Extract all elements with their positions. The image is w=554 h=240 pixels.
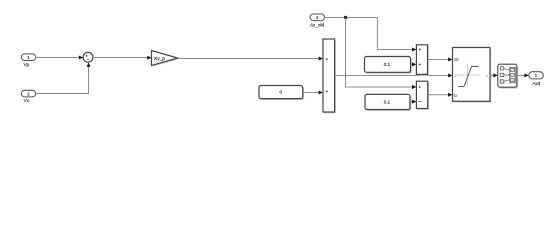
label Axd <box>532 81 540 86</box>
svg-text:Kv_p: Kv_p <box>154 56 165 61</box>
svg-text:0.1: 0.1 <box>384 62 391 67</box>
inport 2 Vx <box>21 90 35 97</box>
svg-text:Vx: Vx <box>24 98 30 103</box>
add A1 (tall rectangle) <box>323 39 336 113</box>
wire Ax_old to add A2 <box>325 18 417 52</box>
svg-text:up: up <box>454 57 459 62</box>
wire Ax_old to subtract A3 <box>346 18 417 90</box>
svg-text:Vp: Vp <box>24 62 30 67</box>
add A2 <box>416 45 428 76</box>
sum junction S1 <box>83 52 93 62</box>
wire zero to add A1 <box>303 91 323 95</box>
constant 0.1 lower <box>365 94 411 111</box>
constant 0.1 upper <box>365 57 412 74</box>
svg-text:Ax_old: Ax_old <box>310 22 324 27</box>
wire sum to gain <box>93 56 152 60</box>
wire upper 0.1 to add A2 <box>411 62 417 66</box>
junction node Ax_old branch <box>344 16 347 19</box>
inport 1 Vp <box>21 54 35 61</box>
wire signal conversion to outport <box>517 73 529 77</box>
wire A1 to saturation input u <box>335 74 453 78</box>
inport 3 Ax_old <box>310 14 325 21</box>
svg-text:lo: lo <box>454 93 458 98</box>
wire A2 to saturation up <box>428 58 453 62</box>
svg-text:0.1: 0.1 <box>384 100 391 105</box>
svg-text:Axd: Axd <box>532 81 540 86</box>
svg-text:u: u <box>454 74 456 78</box>
label Vx <box>24 98 30 103</box>
signal conversion B1 <box>498 64 518 88</box>
subtract A3 <box>416 81 429 110</box>
svg-text:y: y <box>486 74 488 78</box>
label Ax_old <box>310 22 324 27</box>
constant zero C0 <box>259 86 304 101</box>
wire Vx to sum <box>36 63 91 94</box>
wire gain to add A1 <box>178 57 324 61</box>
saturation dynamic U1 <box>453 48 492 103</box>
wire A3 to saturation lo <box>428 93 453 97</box>
outport 1 Axd <box>529 72 544 79</box>
wire lower 0.1 to subtract A3 <box>410 100 416 104</box>
wire saturation to signal conversion <box>490 73 498 77</box>
wire Vp to sum <box>36 56 83 60</box>
label Vp <box>24 62 30 67</box>
gain Kv_p <box>152 51 179 67</box>
